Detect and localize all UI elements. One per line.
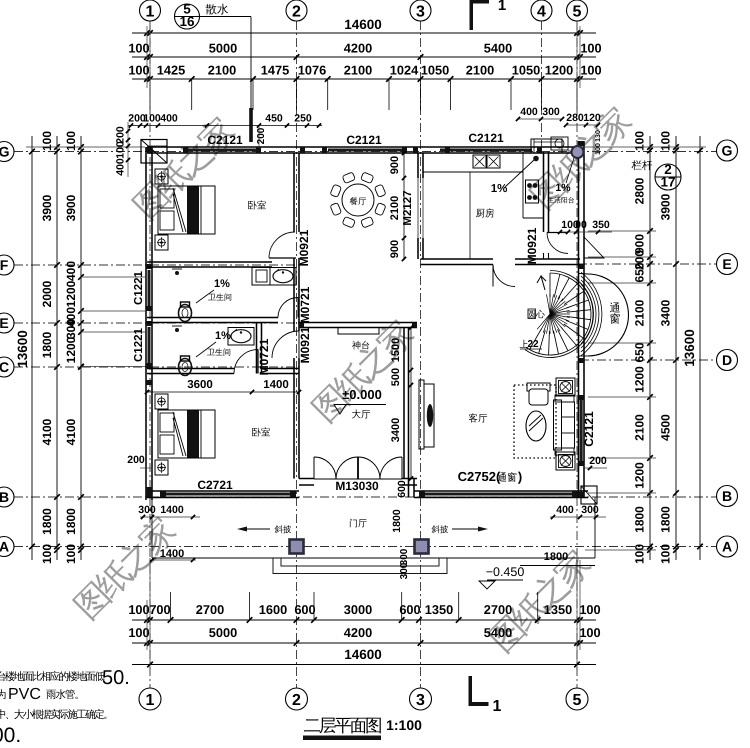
toilet bathroom1: [179, 305, 192, 322]
balcony railing corner top: [531, 139, 562, 153]
svg-text:C2121: C2121: [582, 411, 596, 447]
grid axis line B horizontal: [14, 496, 716, 498]
nightstand bedroom2 lower: [155, 460, 168, 475]
svg-text:900: 900: [389, 156, 401, 174]
entry door M13030 arcs: [314, 457, 336, 479]
svg-text:1%: 1%: [491, 183, 508, 195]
svg-text:B: B: [0, 489, 9, 505]
axis circle E right: [717, 254, 738, 275]
svg-text:4: 4: [537, 3, 546, 20]
svg-text:1350: 1350: [425, 602, 453, 617]
svg-text:C2121: C2121: [346, 133, 382, 147]
grid axis line 2 vertical: [296, 21, 298, 688]
window C2721 bedroom2 bottom: [166, 493, 290, 496]
dim 400/300 below living: [550, 516, 606, 518]
interior dim 3600/1400 bedroom2: [147, 391, 299, 393]
svg-text:200: 200: [127, 454, 145, 466]
wall hall front: [299, 478, 417, 480]
room label bedroom1 woshi: [248, 200, 266, 209]
wall hall west upper: [293, 258, 295, 331]
svg-text:1500: 1500: [390, 338, 402, 362]
svg-text:2: 2: [292, 692, 301, 709]
svg-text:200: 200: [589, 455, 607, 467]
porch label menting: [350, 519, 367, 528]
svg-text:1%: 1%: [555, 182, 571, 194]
svg-text:400: 400: [64, 261, 78, 281]
svg-text:4200: 4200: [344, 41, 372, 56]
svg-text:100: 100: [595, 143, 602, 155]
svg-text:2700: 2700: [484, 602, 512, 617]
door M0921 bedroom1 leaf+arc: [269, 232, 295, 258]
nightstand bedroom2 upper: [155, 394, 168, 409]
wall exterior right: [578, 141, 580, 498]
svg-text:5000: 5000: [209, 625, 237, 640]
wall kitchen/balcony south east: [515, 258, 580, 260]
axis circle 3 bottom: [410, 688, 432, 710]
note line 1: [0, 671, 104, 681]
wall hall west lower: [293, 358, 295, 479]
door opening M13030 gap: [314, 478, 402, 487]
svg-text:5400: 5400: [484, 625, 512, 640]
wall hall north: [299, 322, 417, 324]
end table with plant upper: [556, 378, 575, 396]
svg-text:1: 1: [146, 692, 155, 709]
interior dim 900/2100/900 dining east: [403, 153, 405, 259]
detail marker circle 5/16 with leader: [175, 4, 200, 29]
svg-text:100: 100: [128, 625, 149, 640]
svg-text:M0921: M0921: [525, 227, 539, 264]
svg-text:3000: 3000: [344, 602, 372, 617]
svg-text:1400: 1400: [160, 504, 184, 516]
svg-text:1: 1: [146, 3, 155, 20]
axis circle 5 bottom: [566, 688, 588, 710]
svg-text:100: 100: [64, 544, 78, 564]
svg-text:650: 650: [633, 262, 647, 282]
svg-text:100: 100: [579, 602, 600, 617]
svg-text:3600: 3600: [187, 379, 213, 391]
svg-text:17: 17: [660, 175, 675, 190]
bay window springing stubs: [579, 273, 589, 276]
kitchen stove 4 burners: [526, 180, 539, 203]
axis circle 1 bottom: [139, 688, 161, 710]
svg-text:13600: 13600: [682, 329, 697, 367]
grid axis line 4 vertical: [541, 21, 543, 152]
svg-text:100: 100: [128, 63, 149, 78]
right dimension column 1 detail: [649, 136, 651, 560]
svg-text:22: 22: [527, 339, 539, 350]
stair label yuanxin (center): [528, 310, 545, 319]
axis circle A left: [0, 537, 14, 557]
porch column left: [290, 540, 304, 554]
tv set: [427, 404, 433, 427]
svg-text:1200: 1200: [633, 462, 647, 489]
stair top-right step shape: [584, 237, 604, 258]
altar shelf shentai: [338, 328, 379, 335]
spiral stair center fan (gray): [537, 294, 570, 334]
svg-text:4200: 4200: [344, 625, 372, 640]
sanshui label (apron): [206, 4, 228, 15]
axis circle G right: [717, 140, 738, 161]
window jamb piers right wall: [579, 141, 585, 146]
svg-text:450: 450: [265, 113, 283, 125]
grid axis line F horizontal (left): [14, 264, 300, 266]
piers hall north wall ends: [299, 323, 304, 328]
svg-text:1425: 1425: [157, 63, 185, 78]
svg-text:1800: 1800: [544, 551, 568, 563]
wall exterior bottom bedroom2: [147, 490, 299, 492]
sofa rug dotted: [514, 385, 556, 458]
slope label xiepi right with arrow: [432, 525, 449, 533]
note line 3: [0, 709, 106, 719]
axis circle 3 top: [410, 0, 431, 21]
svg-text:5: 5: [573, 692, 582, 709]
svg-text:1475: 1475: [261, 63, 289, 78]
left dimension extension tails: [81, 276, 145, 278]
grid axis line A horizontal: [14, 546, 716, 548]
svg-text:120: 120: [583, 112, 601, 124]
watermark left-lower: [70, 512, 180, 622]
window C2752 living room bottom: [425, 493, 572, 496]
bay window outer wall arc: [587, 274, 628, 356]
right dimension column 2: [675, 136, 677, 560]
end table with plant lower: [556, 452, 575, 470]
left dimension column 2: [56, 136, 58, 560]
svg-text:400: 400: [160, 113, 178, 125]
nightstand bedroom1 lower: [155, 235, 168, 250]
dims 100 100 350 stair top: [560, 231, 612, 233]
svg-text:1600: 1600: [259, 602, 287, 617]
svg-text:700: 700: [149, 602, 170, 617]
wall exterior left: [145, 147, 147, 500]
wall bathroom2 east: [256, 323, 258, 374]
svg-text:400: 400: [520, 106, 538, 118]
top dimension row total 14600: [132, 32, 596, 34]
svg-text:100: 100: [579, 625, 600, 640]
wall bedroom1 south / bathroom1 north: [147, 261, 272, 263]
axis circle B left: [0, 487, 14, 507]
interior dim 1500/500/3400 hall east: [410, 328, 412, 479]
svg-text:100: 100: [40, 131, 54, 151]
pier bottom-left corner: [146, 487, 152, 497]
window jamb piers left wall: [146, 147, 152, 152]
svg-text:4100: 4100: [64, 418, 78, 445]
svg-text:1:100: 1:100: [386, 717, 422, 733]
room label weishengjian bathroom2: [207, 348, 230, 356]
watermark center: [308, 315, 418, 425]
svg-text:100: 100: [580, 41, 601, 56]
svg-text:1800: 1800: [40, 331, 54, 358]
svg-text:B: B: [722, 488, 732, 504]
axis circle A right: [717, 536, 738, 557]
dining round table with 8 chairs: [342, 184, 374, 216]
svg-text:C2121: C2121: [207, 133, 243, 147]
svg-text:1200: 1200: [64, 280, 78, 307]
svg-text:2100: 2100: [208, 63, 236, 78]
watermark top-right: [526, 102, 636, 212]
door stair room leaf+arc: [493, 265, 515, 287]
svg-text:2100: 2100: [633, 299, 647, 326]
svg-text:400: 400: [556, 504, 574, 516]
left dimension column 3 detail: [80, 136, 82, 560]
section marker 1 bottom: [469, 676, 473, 704]
svg-text:1%: 1%: [215, 330, 231, 342]
right dimension column total 13600: [699, 136, 701, 560]
svg-text:1024: 1024: [390, 63, 419, 78]
bed bedroom1: [158, 186, 215, 234]
kitchen sink unit 2 basins: [473, 155, 486, 168]
svg-text:00: 00: [575, 219, 587, 231]
watermark top-left: [129, 112, 239, 222]
svg-text:2100: 2100: [466, 63, 494, 78]
svg-text:100: 100: [128, 41, 149, 56]
bottom dimension tick tails: [170, 592, 172, 620]
porch steps: [273, 558, 447, 574]
svg-text:1%: 1%: [214, 278, 230, 290]
svg-text:C2121: C2121: [468, 131, 504, 145]
wall bathroom1 south: [147, 317, 278, 319]
nightstand bedroom1 upper: [155, 169, 168, 184]
room label dining canting: [350, 197, 366, 205]
grid axis line 5 vertical: [576, 21, 578, 688]
svg-text:C2721: C2721: [197, 478, 233, 492]
top dimension tick tails: [149, 79, 151, 110]
svg-text:3900: 3900: [659, 193, 673, 220]
svg-text:100: 100: [64, 131, 78, 151]
svg-text:3: 3: [416, 692, 425, 709]
svg-text:250: 250: [294, 113, 312, 125]
svg-text:±0.000: ±0.000: [342, 387, 382, 402]
svg-text:5000: 5000: [209, 41, 237, 56]
svg-text:5400: 5400: [484, 41, 512, 56]
svg-text:C: C: [0, 359, 9, 375]
axis circle G left: [0, 142, 14, 162]
top dimension row 2: 100 5000 4200 5400 100: [132, 56, 596, 58]
room label kitchen chufang: [476, 208, 494, 217]
svg-text:13600: 13600: [15, 330, 30, 368]
balcony 1% leader to column: [566, 158, 574, 183]
top dimension row 3 detail: [132, 78, 596, 80]
axis circle 2 top: [286, 0, 307, 21]
window C2121 kitchen top: [440, 149, 532, 152]
svg-text:E: E: [0, 315, 9, 331]
svg-text:1350: 1350: [544, 602, 572, 617]
railing label langan: [631, 160, 652, 170]
svg-text:600: 600: [396, 480, 408, 498]
grid axis line E horizontal (right): [578, 263, 716, 265]
svg-text:1200: 1200: [545, 63, 573, 78]
svg-text:3900: 3900: [40, 194, 54, 221]
grid axis line 3 vertical: [420, 21, 422, 688]
axis circle 4 top: [531, 0, 552, 21]
axis circle 1 top: [140, 0, 161, 21]
label shentai: [352, 341, 369, 350]
svg-text:1800: 1800: [64, 508, 78, 535]
bottom dimension row 1 detail: [132, 619, 596, 621]
washbasin bathroom1: [270, 268, 296, 286]
svg-text:1800: 1800: [391, 509, 403, 533]
armchair: [527, 383, 550, 391]
svg-text:2100: 2100: [389, 196, 401, 220]
svg-text:1050: 1050: [421, 63, 449, 78]
svg-text:C1221: C1221: [133, 327, 145, 361]
axis circle E left: [0, 313, 14, 333]
grid axis line C horizontal (left): [14, 366, 299, 368]
detail marker circle 2/17: [655, 164, 681, 190]
room label bedroom2 woshi: [252, 427, 270, 436]
svg-text:1: 1: [493, 698, 502, 715]
door M0921 hall west leaf+arc: [272, 331, 299, 358]
floor drain bathroom1: [175, 271, 179, 275]
svg-text:1800: 1800: [40, 508, 54, 535]
wall jog between hall and living room front: [408, 479, 410, 498]
svg-text:M13030: M13030: [335, 479, 379, 493]
svg-text:500: 500: [390, 368, 402, 386]
svg-text:100: 100: [633, 544, 647, 564]
svg-text:100: 100: [115, 141, 127, 159]
floor drain bathroom2: [175, 328, 179, 332]
porch column right: [415, 540, 429, 554]
svg-text:300: 300: [581, 504, 599, 516]
svg-text:100: 100: [143, 113, 161, 125]
dim 200/100/400 top-left vertical: [127, 122, 129, 177]
grid axis line G horizontal: [14, 151, 716, 153]
wall exterior top: [147, 146, 580, 148]
window C2121 dining top: [328, 149, 402, 152]
wall kitchen/balcony: [543, 152, 545, 232]
svg-text:100: 100: [40, 544, 54, 564]
axis circle B right: [717, 486, 738, 507]
svg-text:G: G: [0, 144, 10, 160]
tv cabinet living room: [419, 380, 424, 449]
svg-text:1800: 1800: [633, 506, 647, 533]
axis circle C left: [0, 357, 14, 377]
sofa 3-seat: [554, 400, 562, 450]
stair up arrow: [537, 276, 546, 290]
terrace edge line: [152, 557, 595, 559]
svg-text:00.: 00.: [0, 724, 21, 747]
window C1221 bathroom2 left: [148, 327, 151, 363]
svg-text:400: 400: [115, 158, 127, 176]
svg-text:−0.450: −0.450: [486, 565, 525, 579]
svg-text:130: 130: [595, 130, 602, 142]
svg-text:2: 2: [292, 3, 301, 20]
svg-text:350: 350: [592, 219, 610, 231]
svg-text:2100: 2100: [344, 63, 372, 78]
round column balcony corner: [572, 146, 584, 158]
svg-text:2000: 2000: [40, 280, 54, 307]
stair label up 22: [520, 340, 528, 348]
wall bedroom1/dining: [293, 153, 295, 232]
svg-text:300: 300: [399, 562, 410, 579]
svg-text:1400: 1400: [160, 548, 184, 560]
svg-text:A: A: [0, 539, 9, 555]
svg-text:G: G: [722, 143, 733, 159]
svg-text:14600: 14600: [344, 647, 382, 662]
svg-text:2100: 2100: [633, 414, 647, 441]
window jamb piers top wall: [147, 147, 152, 153]
svg-text:100: 100: [659, 131, 673, 151]
svg-text:A: A: [722, 539, 732, 555]
title erceng pingmiantu: [304, 718, 381, 734]
wall dining/kitchen lower: [417, 238, 419, 259]
svg-text:4100: 4100: [40, 418, 54, 445]
svg-text:D: D: [722, 352, 732, 368]
window C2121 bedroom1 top: [188, 149, 256, 152]
svg-text:1076: 1076: [298, 63, 326, 78]
door M0721 bathroom1 leaf+arc: [278, 298, 298, 318]
bottom extension verticals: [146, 600, 148, 650]
wall hall east / living divider: [403, 328, 405, 479]
svg-text:1800: 1800: [659, 506, 673, 533]
svg-text:5: 5: [573, 3, 582, 20]
grid axis line 1 vertical: [149, 21, 151, 688]
left dimension column total 13600: [31, 136, 33, 560]
kitchen counter lines: [423, 171, 523, 173]
axis circle 2 bottom: [286, 688, 308, 710]
bed bedroom2: [158, 410, 215, 458]
svg-text:200: 200: [256, 127, 267, 144]
note line 2: [0, 689, 6, 699]
dim 300/1400 below bedroom2: [140, 516, 200, 518]
axis circle 5 top: [567, 0, 588, 21]
slope label xiepi left with arrow: [275, 525, 292, 533]
svg-text:2800: 2800: [633, 177, 647, 204]
bottom dimension row 2: [132, 642, 596, 644]
room label hall dating: [352, 410, 370, 419]
svg-text:100: 100: [580, 63, 601, 78]
window C1221 bathroom1 left: [148, 270, 151, 306]
bay window glazing arcs: [581, 284, 593, 344]
section marker 1 top: [470, 0, 489, 4]
spiral staircase: [525, 271, 593, 358]
svg-text:14600: 14600: [344, 17, 382, 32]
svg-text:3400: 3400: [659, 299, 673, 326]
balcony label shenghuoyangtai: [547, 197, 573, 204]
axis circle D right: [717, 350, 738, 371]
small dims above balcony 400/300: [518, 118, 562, 120]
svg-text:200: 200: [115, 126, 127, 144]
svg-text:M0721: M0721: [257, 338, 271, 375]
right dimension extension tails: [588, 230, 656, 232]
wall corridor south / bedroom2 north-east: [262, 368, 299, 370]
svg-text:300: 300: [542, 106, 560, 118]
wall kitchen south west: [421, 258, 494, 260]
svg-text:50.: 50.: [102, 667, 130, 689]
corner pillar top-left: [141, 140, 167, 164]
svg-text:280: 280: [566, 112, 584, 124]
wall exterior bottom living room: [414, 490, 588, 492]
washbasin bathroom2: [228, 328, 254, 346]
svg-text:100: 100: [659, 544, 673, 564]
svg-text:M0921: M0921: [298, 326, 312, 363]
svg-text:3: 3: [416, 3, 425, 20]
svg-text:1400: 1400: [263, 379, 289, 391]
room label weishengjian bathroom1: [208, 293, 231, 301]
svg-text:650: 650: [633, 342, 647, 362]
balcony washing unit: [551, 137, 568, 150]
corner pillar bottom-right: [581, 486, 597, 504]
pier bottom wall joints: [160, 491, 166, 498]
svg-text:C1221: C1221: [133, 270, 145, 304]
svg-text:2700: 2700: [196, 602, 224, 617]
dim 200/100/400 top-left horizontal: [128, 125, 322, 127]
svg-text:E: E: [722, 256, 731, 272]
svg-text:900: 900: [389, 240, 401, 258]
svg-text:600: 600: [294, 602, 315, 617]
window C2121 living room right: [580, 400, 583, 461]
svg-text:C2752(: C2752(: [458, 469, 501, 484]
axis circle F left: [0, 255, 14, 275]
